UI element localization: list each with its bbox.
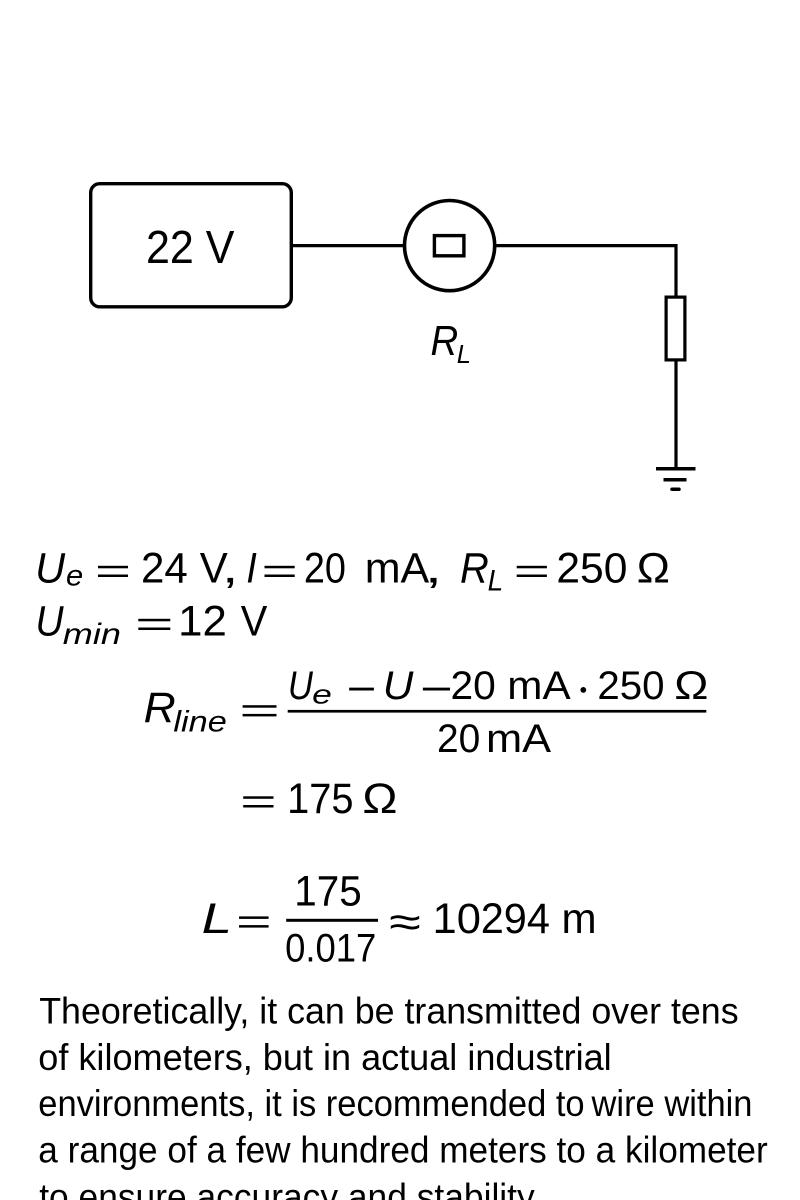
svg-text:line: line — [173, 705, 226, 738]
svg-text:V: V — [241, 597, 268, 645]
svg-text:Theoretically, it can be trans: Theoretically, it can be transmitted ove… — [39, 991, 738, 1032]
svg-text:−: − — [347, 667, 377, 711]
equation line A — [35, 544, 670, 597]
svg-text:294: 294 — [481, 895, 550, 943]
svg-text:20: 20 — [304, 544, 346, 592]
svg-text:,: , — [425, 544, 443, 592]
svg-text:250: 250 — [556, 544, 627, 592]
svg-text:to ensure accuracy and stabili: to ensure accuracy and stability. — [39, 1176, 542, 1200]
svg-text:−: − — [420, 667, 453, 711]
svg-text:environments, it is recommende: environments, it is recommended to wire … — [38, 1083, 752, 1124]
svg-text:R: R — [431, 317, 459, 364]
svg-text:L: L — [488, 564, 504, 597]
svg-text:e: e — [312, 680, 332, 710]
svg-text:10: 10 — [433, 895, 481, 943]
equation Rline main — [144, 684, 277, 739]
svg-text:U: U — [383, 664, 415, 708]
equation line B — [35, 597, 267, 651]
svg-text:12: 12 — [178, 597, 227, 645]
svg-text:≈: ≈ — [389, 899, 421, 947]
svg-text:of kilometers, but in actual i: of kilometers, but in actual industrial — [38, 1037, 611, 1078]
svg-text:R: R — [460, 544, 489, 592]
equation = 175 Ohm — [243, 775, 397, 823]
cdot operator — [580, 687, 586, 693]
equation L fraction — [202, 895, 269, 943]
svg-text:175: 175 — [287, 775, 353, 823]
svg-text:a range of a few hundred meter: a range of a few hundred meters to a kil… — [38, 1130, 767, 1171]
svg-text:L: L — [202, 895, 232, 943]
svg-text:m: m — [562, 895, 597, 943]
wire source to meter — [292, 244, 404, 247]
svg-text:20: 20 — [451, 664, 496, 708]
approx result — [389, 895, 596, 947]
svg-text:175: 175 — [294, 867, 361, 915]
svg-text:20: 20 — [437, 717, 480, 761]
svg-text:250: 250 — [597, 664, 664, 708]
svg-text:U: U — [288, 664, 314, 708]
fraction bar 2 — [286, 919, 378, 922]
svg-text:mA: mA — [507, 664, 571, 708]
fraction bar 1 — [288, 710, 707, 713]
svg-text:,: , — [222, 544, 238, 592]
svg-text:Ω: Ω — [674, 664, 708, 708]
svg-text:0.017: 0.017 — [285, 926, 376, 970]
svg-text:mA: mA — [486, 717, 551, 761]
meter M1 circle — [405, 201, 495, 291]
svg-text:min: min — [63, 618, 121, 651]
ground bar 2 — [664, 478, 687, 482]
svg-text:L: L — [457, 339, 471, 369]
fraction 1 denominator — [437, 717, 551, 761]
svg-text:22 V: 22 V — [146, 221, 235, 273]
wire meter to corner — [495, 244, 677, 247]
svg-text:R: R — [144, 684, 176, 732]
svg-text:U: U — [35, 544, 66, 592]
meter symbol rect — [434, 236, 464, 256]
svg-text:I: I — [246, 544, 257, 592]
svg-text:24: 24 — [141, 544, 188, 592]
ground bar 1 — [656, 467, 696, 471]
svg-text:Ω: Ω — [362, 775, 397, 823]
svg-text:e: e — [66, 560, 83, 593]
voltage source box 22V — [91, 184, 292, 307]
svg-text:mA: mA — [365, 544, 430, 592]
wire resistor to ground — [674, 360, 677, 469]
svg-text:U: U — [35, 597, 64, 645]
ground bar 3 — [672, 487, 679, 491]
resistor R load — [666, 297, 685, 360]
svg-text:Ω: Ω — [637, 544, 670, 592]
wire corner down to resistor — [674, 244, 677, 297]
